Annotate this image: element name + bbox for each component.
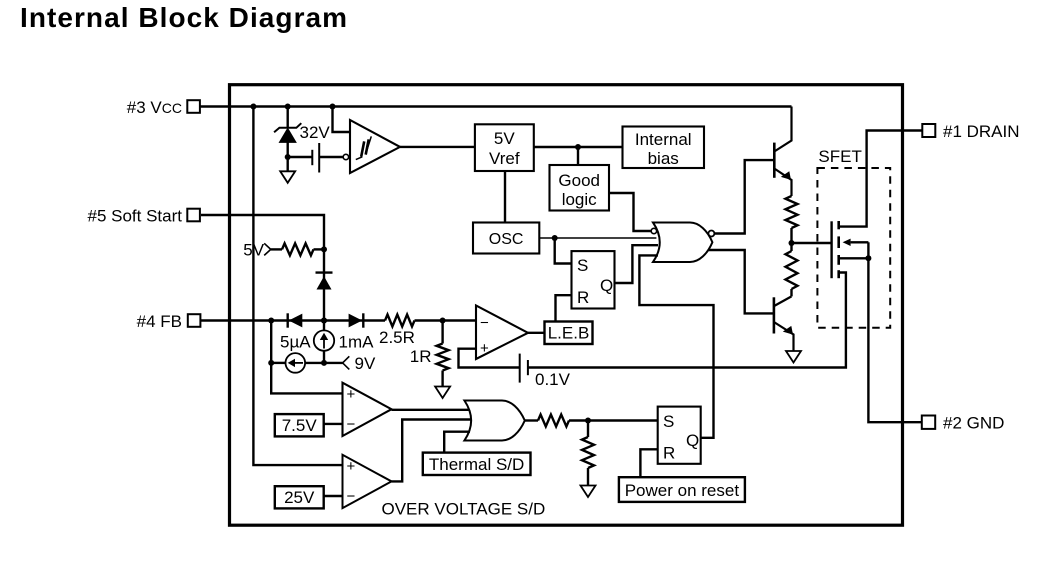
resistor R-driver-upper <box>786 196 798 251</box>
OR gate U7 <box>464 401 524 441</box>
block L.E.B <box>545 322 593 345</box>
label 1mA <box>339 333 375 352</box>
off-page chevron 9V <box>324 356 349 369</box>
block 5V Vref <box>475 124 534 171</box>
pin #5 Soft Start <box>88 207 200 226</box>
battery B2 0.1V <box>520 354 528 383</box>
svg-text:S: S <box>577 256 588 275</box>
svg-text:#5 Soft Start: #5 Soft Start <box>88 207 183 226</box>
svg-text:S: S <box>663 412 674 431</box>
svg-text:−: − <box>480 315 489 332</box>
wire comparator out to LEB <box>528 332 545 334</box>
wire source to GND pin <box>868 258 921 422</box>
wire FB line <box>201 319 385 321</box>
label 9V <box>355 354 376 373</box>
wire Good logic to NOR <box>609 193 651 231</box>
svg-text:−: − <box>347 488 356 505</box>
transistor Q1 (NPN) <box>774 107 791 197</box>
wire 7.5V comp out to OR <box>392 409 472 411</box>
comparator U5 (7.5V) <box>343 383 392 436</box>
block 7.5V ref <box>275 414 324 436</box>
svg-text:Thermal S/D: Thermal S/D <box>429 455 524 474</box>
svg-text:bias: bias <box>648 149 679 168</box>
label 5V <box>243 241 264 260</box>
title <box>20 2 348 33</box>
svg-text:9V: 9V <box>355 354 376 373</box>
wire latch2 Q to NOR <box>639 255 713 437</box>
latch U8 (S/R) <box>658 407 701 464</box>
block OSC <box>473 223 539 254</box>
wire 25V to minus <box>324 495 343 497</box>
current source 1mA <box>314 330 334 350</box>
wire comparator plus feed <box>459 349 520 368</box>
svg-text:+: + <box>347 386 356 403</box>
svg-text:5µA: 5µA <box>280 333 311 352</box>
svg-text:R: R <box>577 288 589 307</box>
svg-text:logic: logic <box>562 190 597 209</box>
svg-text:Internal: Internal <box>635 130 692 149</box>
label 2.5R <box>379 328 415 347</box>
resistor 2.5R <box>385 315 415 327</box>
svg-text:32V: 32V <box>300 123 331 142</box>
svg-text:#1 DRAIN: #1 DRAIN <box>943 122 1020 141</box>
wire to latch2 S <box>588 419 658 421</box>
label 5uA <box>280 333 311 352</box>
resistor R-driver-lower <box>786 251 798 296</box>
junction FB/softstart <box>321 318 327 324</box>
svg-text:#3 VCC: #3 VCC <box>127 98 182 117</box>
MOSFET M1 <box>832 221 869 278</box>
svg-text:0.1V: 0.1V <box>535 370 571 389</box>
junction soft-start/FB <box>321 318 327 324</box>
junction zener/battery node <box>285 154 291 160</box>
label 0.1V <box>535 370 571 389</box>
wire 25V comp out to OR <box>392 420 472 482</box>
comparator U6 (25V) <box>343 455 392 508</box>
wire NOR to Q2 base <box>708 250 774 313</box>
svg-text:#2 GND: #2 GND <box>943 414 1004 433</box>
svg-text:25V: 25V <box>284 488 315 507</box>
off-page chevron 5V <box>264 243 271 255</box>
resistor R-ovsd series <box>524 415 588 427</box>
svg-text:−: − <box>347 416 356 433</box>
wire FB to comparator minus <box>415 319 477 321</box>
wire poweronreset to latch2 R <box>640 449 657 477</box>
NOR gate U3 <box>651 223 714 263</box>
latch U2 (S/R) <box>572 251 615 308</box>
wire zener to battery <box>288 156 313 158</box>
wire VCC rail <box>200 105 792 107</box>
junction OSC output <box>552 235 558 241</box>
wire NOR output to Q1 base <box>714 160 774 233</box>
pin #3 VCC <box>127 98 200 117</box>
wire L.E.B to latch1 R <box>556 295 572 321</box>
block Good logic <box>550 165 610 211</box>
wire FB down to 5uA row <box>270 321 272 363</box>
wire Vref to OSC <box>504 171 506 223</box>
svg-text:Q: Q <box>686 431 699 450</box>
schmitt buffer U1 <box>343 120 400 173</box>
block Internal bias <box>623 127 705 169</box>
junction FB/1R <box>440 318 446 324</box>
svg-text:SFET: SFET <box>818 147 861 166</box>
battery B1 <box>312 143 319 173</box>
junction gate node <box>789 240 795 246</box>
block Power on reset <box>619 477 745 502</box>
pin #4 FB <box>137 312 201 331</box>
wire FB sense to 7.5V comparator <box>271 363 342 394</box>
resistor R-ovsd pulldown <box>582 421 594 486</box>
junction OVSD node <box>585 418 591 424</box>
svg-text:5V: 5V <box>243 241 264 260</box>
wire gate node to SFET gate <box>792 242 832 244</box>
label 1R <box>410 347 432 366</box>
label SFET <box>818 147 861 166</box>
wire drain <box>839 131 923 227</box>
junction SFET source <box>865 255 871 261</box>
svg-text:7.5V: 7.5V <box>282 416 318 435</box>
pin #2 GND <box>922 414 1005 433</box>
svg-text:Internal Block Diagram: Internal Block Diagram <box>20 2 348 33</box>
SFET dashed box <box>817 168 890 328</box>
svg-text:+: + <box>480 340 489 357</box>
junction Vref/Good logic <box>575 144 581 150</box>
wire battery to schmitt input <box>319 156 343 158</box>
junction VCC/OVP sense <box>250 104 256 110</box>
svg-text:L.E.B: L.E.B <box>548 324 590 343</box>
wire 1mA to lower node <box>323 351 325 363</box>
junction FB/5uA <box>268 318 274 324</box>
svg-text:5V: 5V <box>494 129 515 148</box>
wire schmitt output to Vref <box>400 146 475 148</box>
svg-text:1R: 1R <box>410 347 432 366</box>
wire Vref to Internal bias <box>534 146 623 148</box>
svg-text:OSC: OSC <box>489 231 524 248</box>
svg-text:Good: Good <box>558 171 600 190</box>
wire zener branch <box>287 107 289 128</box>
wire Thermal to OR <box>444 432 470 453</box>
ground below 1R <box>435 387 450 399</box>
svg-text:2.5R: 2.5R <box>379 328 415 347</box>
ground below pulldown <box>581 486 596 498</box>
junction soft-start/5V resistor <box>321 246 327 252</box>
wire OSC to NOR (clock) <box>539 237 656 239</box>
pin #1 DRAIN <box>922 122 1019 141</box>
svg-text:1mA: 1mA <box>339 333 375 352</box>
diode D3 (left) <box>288 313 303 327</box>
svg-text:R: R <box>663 444 675 463</box>
svg-text:+: + <box>347 458 356 475</box>
wire to Good logic <box>577 147 579 165</box>
label 32V <box>300 123 331 142</box>
svg-text:OVER VOLTAGE S/D: OVER VOLTAGE S/D <box>382 500 546 519</box>
junction VCC/schmitt <box>330 104 336 110</box>
svg-text:#4 FB: #4 FB <box>137 312 182 331</box>
wire OSC to latch S <box>555 238 572 264</box>
resistor R-softstart 5V <box>271 243 324 255</box>
ground below zener <box>280 157 295 183</box>
diode D2 (soft-start) <box>316 273 333 290</box>
wire sense line to SFET source <box>528 273 846 368</box>
zener diode 32V <box>274 123 301 157</box>
wire VCC to 25V comparator input <box>253 107 342 466</box>
block 25V ref <box>275 486 324 508</box>
current source 5uA <box>271 353 324 373</box>
junction VCC/zener <box>285 104 291 110</box>
wire soft start <box>201 215 324 330</box>
wire VCC to schmitt buffer <box>333 107 351 133</box>
block Thermal S/D <box>423 453 531 475</box>
junction 5uA row left <box>268 360 274 366</box>
svg-text:Power on reset: Power on reset <box>625 481 740 500</box>
wire 7.5V to minus <box>324 423 343 425</box>
svg-text:Q: Q <box>600 276 613 295</box>
diode D4 (right) <box>349 313 364 327</box>
junction 5uA row right <box>321 360 327 366</box>
IC boundary box <box>230 85 903 526</box>
resistor 1R <box>437 321 449 387</box>
label OVER VOLTAGE S/D <box>382 500 546 519</box>
wire latch1 Q to NOR <box>615 245 659 283</box>
svg-text:Vref: Vref <box>489 149 520 168</box>
transistor Q2 (NPN) <box>774 296 794 351</box>
ground below Q2 <box>786 351 801 363</box>
comparator U4 <box>476 306 528 360</box>
